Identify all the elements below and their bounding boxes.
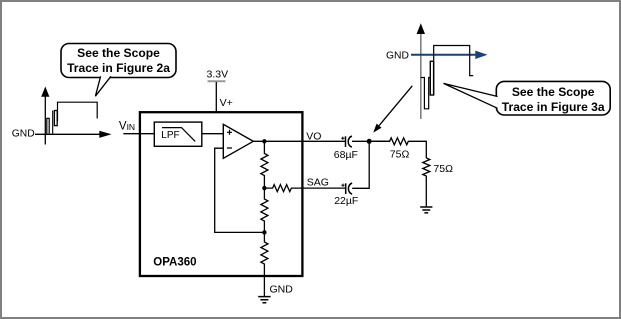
capacitor C1 68uF plus sign xyxy=(341,137,344,140)
svg-text:OPA360: OPA360 xyxy=(153,256,196,268)
svg-text:75Ω: 75Ω xyxy=(390,148,410,160)
svg-text:VIN: VIN xyxy=(119,120,135,132)
resistor 75 ohm shunt xyxy=(423,158,430,207)
node feedback tap 2 xyxy=(262,230,266,234)
resistor R2 (internal middle) xyxy=(261,188,268,232)
left trace waveform rising edge xyxy=(52,111,54,134)
callout tail Figure 2a xyxy=(95,76,111,96)
op-amp U1 xyxy=(223,124,253,158)
node feedback tap 1 xyxy=(262,186,266,190)
right trace blue GND axis xyxy=(411,54,477,56)
ground symbol 75 ohm xyxy=(420,207,432,213)
right scope trace vertical axis xyxy=(420,34,422,120)
wire LPF to op-amp xyxy=(202,133,224,135)
power rail bar xyxy=(208,80,226,82)
OPA360 box xyxy=(140,112,303,276)
svg-text:GND: GND xyxy=(386,50,409,61)
wire node A down to C2 xyxy=(352,141,369,188)
left scope trace horizontal axis xyxy=(35,133,100,135)
svg-text:V+: V+ xyxy=(220,97,233,109)
left trace waveform sync pulse xyxy=(47,118,49,133)
capacitor C2 22uF xyxy=(345,183,347,194)
node A xyxy=(367,139,372,144)
svg-text:SAG: SAG xyxy=(307,177,329,189)
svg-text:22µF: 22µF xyxy=(334,195,358,207)
wire VIN to LPF xyxy=(123,133,154,135)
left scope trace vertical axis xyxy=(44,96,46,145)
svg-text:75Ω: 75Ω xyxy=(433,163,453,175)
svg-text:GND: GND xyxy=(270,284,294,296)
resistor R3 (internal bottom) xyxy=(261,232,268,296)
resistor 75 ohm series xyxy=(372,138,427,158)
svg-text:Trace in Figure 3a: Trace in Figure 3a xyxy=(502,100,605,114)
left trace video plateau xyxy=(58,102,98,121)
capacitor C1 68uF xyxy=(345,136,347,147)
wire op-amp output to VO xyxy=(253,140,345,142)
right trace video plateau xyxy=(434,46,474,96)
wire V+ xyxy=(215,82,217,112)
ground symbol OPA360 xyxy=(258,297,270,303)
svg-text:3.3V: 3.3V xyxy=(207,69,229,81)
svg-text:Trace in Figure 2a: Trace in Figure 2a xyxy=(67,61,170,75)
LPF rolloff symbol xyxy=(162,128,195,142)
wire C1 to node A xyxy=(352,140,390,142)
right trace colour burst xyxy=(430,61,433,95)
callout bubble Figure 2a xyxy=(61,44,176,78)
callout bubble Figure 3a xyxy=(496,81,610,115)
capacitor C2 22uF plus sign xyxy=(341,184,344,187)
svg-text:See the Scope: See the Scope xyxy=(512,85,595,99)
svg-text:VO: VO xyxy=(306,130,321,142)
svg-text:68µF: 68µF xyxy=(334,149,358,161)
callout tail Figure 3a xyxy=(444,83,498,108)
LPF block xyxy=(154,122,202,146)
node output xyxy=(262,139,266,143)
pointer arrow to node A xyxy=(379,86,412,126)
left trace colour burst xyxy=(54,111,57,126)
svg-text:See the Scope: See the Scope xyxy=(77,46,160,60)
resistor R4 (to SAG pin) xyxy=(264,185,345,192)
wire inverting input xyxy=(215,148,265,232)
right trace waveform sync dip xyxy=(421,78,431,109)
svg-text:LPF: LPF xyxy=(161,130,179,141)
svg-text:GND: GND xyxy=(12,128,35,139)
resistor R1 (internal top) xyxy=(261,141,268,188)
